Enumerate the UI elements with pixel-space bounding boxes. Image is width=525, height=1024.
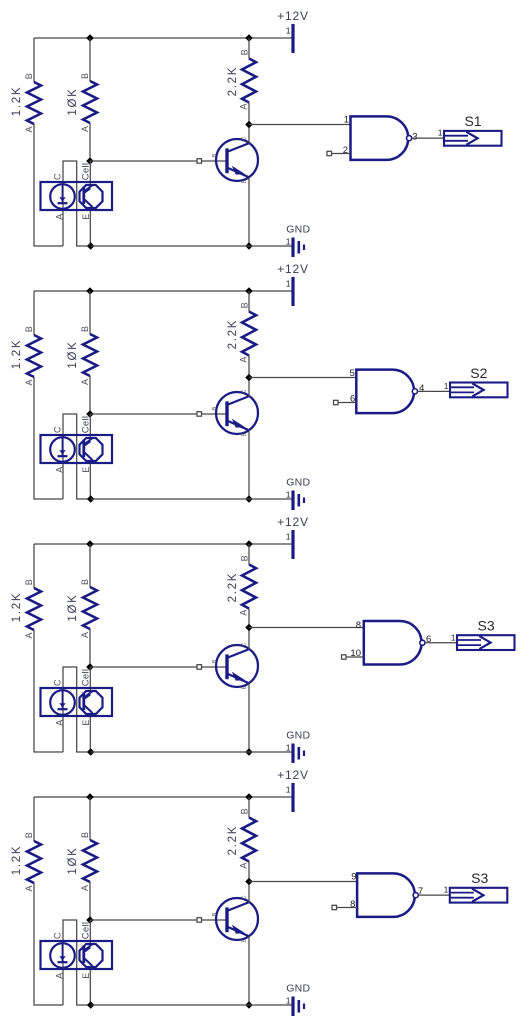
wire: ground rail (section 3) xyxy=(91,751,292,753)
wire: base wire to transistor (section 4) xyxy=(90,919,226,921)
svg-text:1: 1 xyxy=(286,490,291,500)
section 3 xyxy=(11,515,515,763)
wire: phototransistor collector lead (section 1) xyxy=(89,161,91,186)
node: emitter / ground rail junction (section 3) xyxy=(245,748,253,756)
svg-text:B: B xyxy=(212,659,218,663)
svg-text:1: 1 xyxy=(444,885,449,895)
transistor Q1 xyxy=(212,136,258,183)
svg-text:2.2K: 2.2K xyxy=(227,66,239,96)
svg-text:+12V: +12V xyxy=(277,768,309,782)
resistor R2b 10K xyxy=(67,326,97,385)
transistor Q3 xyxy=(212,642,258,689)
svg-text:1.2K: 1.2K xyxy=(11,592,23,622)
pin marker: transistor base pin square (section 3) xyxy=(197,665,202,670)
svg-text:1ØK: 1ØK xyxy=(67,340,79,368)
node: top rail / 2.2K junction (section 2) xyxy=(245,287,253,295)
pin marker: transistor base pin square (section 1) xyxy=(197,159,202,164)
resistor R4a 1.2K xyxy=(11,832,41,891)
wire: emitter lead (section 3) xyxy=(248,683,250,752)
svg-text:1.2K: 1.2K xyxy=(11,339,23,369)
pin marker: transistor base pin square (section 2) xyxy=(197,412,202,417)
wire: 1.2K bottom lead to anode hook (section 3) xyxy=(34,630,63,752)
wire: +12V top rail (section 1) xyxy=(34,37,292,39)
svg-text:A: A xyxy=(24,885,34,891)
svg-text:A: A xyxy=(239,104,249,110)
wire: 10K top lead (section 1) xyxy=(89,38,91,81)
svg-text:Cell: Cell xyxy=(81,669,92,687)
svg-text:B: B xyxy=(80,326,90,332)
svg-text:1ØK: 1ØK xyxy=(67,87,79,115)
svg-text:2.2K: 2.2K xyxy=(227,319,239,349)
svg-text:1ØK: 1ØK xyxy=(67,593,79,621)
wire: 1.2K top lead (section 2) xyxy=(33,291,35,335)
optocoupler U1a Cell xyxy=(41,163,113,220)
wire: phototransistor emitter lead (section 4) xyxy=(89,966,91,1005)
wire: 1.2K bottom lead to anode hook (section 1) xyxy=(34,124,63,246)
optocoupler U3a Cell xyxy=(41,669,113,726)
svg-text:B: B xyxy=(240,302,250,308)
node: base node junction (section 3) xyxy=(86,663,94,671)
port S3 (section 4) xyxy=(444,870,508,903)
svg-text:1: 1 xyxy=(286,532,291,542)
svg-text:A: A xyxy=(55,973,65,979)
node: base node junction (section 1) xyxy=(86,157,94,165)
section 2 xyxy=(11,262,508,510)
wire: 1.2K bottom lead to anode hook (section 2) xyxy=(34,377,63,499)
resistor R2c 2.2K xyxy=(227,302,256,362)
node: top rail / 2.2K junction (section 3) xyxy=(245,540,253,548)
wire: +12V top rail (section 4) xyxy=(34,796,292,798)
svg-text:+12V: +12V xyxy=(277,9,309,23)
power +12V P1 xyxy=(277,9,309,53)
svg-text:6: 6 xyxy=(426,634,431,645)
wire: ground rail (section 2) xyxy=(91,498,292,500)
wire: LED cathode route (section 3) xyxy=(63,667,91,752)
svg-text:A: A xyxy=(239,863,249,869)
svg-text:B: B xyxy=(80,73,90,79)
pin marker: unused gate input square (section 3) xyxy=(342,655,347,659)
wire: 10K bottom lead (section 3) xyxy=(89,629,91,667)
node: ground rail left junction (section 4) xyxy=(87,1001,95,1009)
svg-text:S3: S3 xyxy=(478,618,495,634)
wire: collector lead (section 4) xyxy=(248,882,250,904)
svg-text:A: A xyxy=(55,467,65,473)
wire: 10K bottom lead (section 1) xyxy=(89,123,91,161)
wire: ground rail (section 1) xyxy=(91,245,292,247)
wire: unused gate input stub (section 2) xyxy=(338,402,356,404)
power +12V P3 xyxy=(277,515,309,559)
wire: 1.2K top lead (section 1) xyxy=(33,38,35,82)
svg-text:B: B xyxy=(80,832,90,838)
wire: 2.2K bottom lead (section 2) xyxy=(248,356,250,378)
svg-text:GND: GND xyxy=(286,730,310,742)
pin marker: unused gate input square (section 4) xyxy=(332,905,337,909)
wire: 2.2K bottom lead (section 4) xyxy=(248,862,250,882)
svg-text:GND: GND xyxy=(286,983,310,995)
wire: emitter lead (section 1) xyxy=(248,177,250,246)
wire: base wire to transistor (section 3) xyxy=(90,666,226,668)
svg-text:E: E xyxy=(242,938,248,942)
svg-text:B: B xyxy=(212,912,218,916)
wire: gate output to port (section 3) xyxy=(425,642,457,644)
svg-text:A: A xyxy=(80,379,90,385)
pin marker: unused gate input square (section 2) xyxy=(334,400,339,404)
wire: collector to gate input (section 2) xyxy=(249,377,356,379)
svg-text:B: B xyxy=(212,406,218,410)
svg-text:C: C xyxy=(242,895,248,899)
port S1 (section 1) xyxy=(438,113,502,146)
wire: collector lead (section 3) xyxy=(248,628,250,651)
resistor R3a 1.2K xyxy=(11,579,41,638)
svg-text:C: C xyxy=(242,389,248,393)
wire: collector lead (section 1) xyxy=(248,125,250,145)
wire: 10K bottom lead (section 2) xyxy=(89,376,91,414)
wire: emitter lead (section 2) xyxy=(248,430,250,499)
svg-text:S2: S2 xyxy=(470,365,487,381)
wire: gate output to port (section 4) xyxy=(418,894,449,896)
optocoupler U4a Cell xyxy=(41,922,113,979)
svg-text:C: C xyxy=(53,679,63,686)
svg-text:B: B xyxy=(24,832,34,838)
section 1 xyxy=(11,9,502,257)
wire: 10K top lead (section 4) xyxy=(89,797,91,840)
svg-text:E: E xyxy=(242,685,248,689)
resistor R1a 1.2K xyxy=(11,73,41,132)
nand gate U1b xyxy=(343,115,418,160)
wire: 1.2K bottom lead to anode hook (section 4) xyxy=(34,883,63,1005)
svg-text:9: 9 xyxy=(351,872,356,883)
wire: 1.2K top lead (section 3) xyxy=(33,544,35,588)
svg-text:1: 1 xyxy=(438,128,443,138)
svg-text:A: A xyxy=(80,632,90,638)
node: base node junction (section 4) xyxy=(86,916,94,924)
svg-text:B: B xyxy=(24,73,34,79)
wire: 10K top lead (section 3) xyxy=(89,544,91,587)
wire: collector to gate input (section 1) xyxy=(249,124,351,126)
svg-text:C: C xyxy=(53,173,63,180)
wire: 10K bottom lead (section 4) xyxy=(89,882,91,920)
wire: LED cathode route (section 4) xyxy=(63,920,91,1005)
wire: unused gate input stub (section 1) xyxy=(332,153,351,155)
resistor R3b 10K xyxy=(67,579,97,638)
svg-text:E: E xyxy=(81,214,91,220)
svg-text:A: A xyxy=(239,357,249,363)
svg-text:A: A xyxy=(55,214,65,220)
wire: phototransistor collector lead (section 4) xyxy=(89,920,91,945)
svg-text:GND: GND xyxy=(286,224,310,236)
wire: 2.2K top lead (section 3) xyxy=(248,544,250,565)
svg-text:Cell: Cell xyxy=(81,163,92,181)
wire: 2.2K top lead (section 4) xyxy=(248,797,250,818)
resistor R4c 2.2K xyxy=(227,808,256,868)
node: collector junction (section 1) xyxy=(245,121,253,129)
svg-text:1: 1 xyxy=(344,115,349,126)
svg-text:1: 1 xyxy=(451,632,456,642)
svg-text:1ØK: 1ØK xyxy=(67,846,79,874)
wire: +12V top rail (section 3) xyxy=(34,543,292,545)
wire: 2.2K top lead (section 1) xyxy=(248,38,250,59)
svg-text:A: A xyxy=(24,126,34,132)
svg-text:A: A xyxy=(55,720,65,726)
node: top rail / 10K junction (section 3) xyxy=(86,540,94,548)
section 4 xyxy=(11,768,507,1016)
svg-text:B: B xyxy=(24,326,34,332)
svg-text:E: E xyxy=(242,432,248,436)
svg-text:C: C xyxy=(53,932,63,939)
svg-text:3: 3 xyxy=(412,131,417,142)
svg-text:B: B xyxy=(240,555,250,561)
svg-text:A: A xyxy=(80,885,90,891)
wire: gate output to port (section 1) xyxy=(412,137,444,139)
wire: base wire to transistor (section 1) xyxy=(90,160,226,162)
svg-text:5: 5 xyxy=(350,368,355,379)
svg-text:2: 2 xyxy=(343,145,348,156)
ground GND (section 3) xyxy=(286,730,311,764)
optocoupler U2a Cell xyxy=(41,416,113,473)
node: emitter / ground rail junction (section 1) xyxy=(245,242,253,250)
port S2 (section 2) xyxy=(444,365,508,398)
wire: phototransistor collector lead (section 3) xyxy=(89,667,91,692)
svg-text:1: 1 xyxy=(286,743,291,753)
svg-text:2.2K: 2.2K xyxy=(227,825,239,855)
wire: 1.2K top lead (section 4) xyxy=(33,797,35,841)
svg-text:A: A xyxy=(24,632,34,638)
ground GND (section 2) xyxy=(286,477,311,511)
svg-text:S3: S3 xyxy=(471,870,488,886)
svg-text:A: A xyxy=(239,610,249,616)
wire: collector to gate input (section 4) xyxy=(249,881,357,883)
wire: unused gate input stub (section 4) xyxy=(337,907,358,909)
transistor Q2 xyxy=(212,389,258,436)
svg-text:+12V: +12V xyxy=(277,515,309,529)
node: ground rail left junction (section 2) xyxy=(87,495,95,503)
pin marker: transistor base pin square (section 4) xyxy=(197,918,202,923)
svg-text:1: 1 xyxy=(444,381,449,391)
svg-text:B: B xyxy=(80,579,90,585)
node: top rail / 10K junction (section 4) xyxy=(86,793,94,801)
port S3 (section 3) xyxy=(451,618,515,651)
wire: LED cathode route (section 2) xyxy=(63,414,91,499)
svg-text:C: C xyxy=(242,642,248,646)
resistor R1b 10K xyxy=(67,73,97,132)
node: emitter / ground rail junction (section 4) xyxy=(245,1001,253,1009)
svg-text:2.2K: 2.2K xyxy=(227,572,239,602)
transistor Q4 xyxy=(212,895,258,942)
resistor R1c 2.2K xyxy=(227,49,256,109)
svg-text:A: A xyxy=(80,126,90,132)
svg-text:1: 1 xyxy=(286,996,291,1006)
wire: unused gate input stub (section 3) xyxy=(346,656,364,658)
svg-text:E: E xyxy=(81,973,91,979)
svg-text:S1: S1 xyxy=(464,113,481,129)
node: top rail / 10K junction (section 2) xyxy=(86,287,94,295)
svg-text:GND: GND xyxy=(286,477,310,489)
wire: LED cathode route (section 1) xyxy=(63,161,91,246)
pin marker: unused gate input square (section 1) xyxy=(327,151,332,155)
wire: gate output to port (section 2) xyxy=(418,390,450,392)
svg-text:8: 8 xyxy=(350,899,355,910)
wire: phototransistor emitter lead (section 3) xyxy=(89,713,91,752)
nand gate U3b xyxy=(350,620,431,665)
wire: emitter lead (section 4) xyxy=(248,936,250,1005)
wire: phototransistor collector lead (section 2) xyxy=(89,414,91,439)
svg-text:1: 1 xyxy=(286,237,291,247)
node: top rail / 2.2K junction (section 1) xyxy=(245,34,253,42)
svg-text:B: B xyxy=(240,49,250,55)
svg-text:B: B xyxy=(212,153,218,157)
svg-text:C: C xyxy=(242,136,248,140)
wire: 2.2K top lead (section 2) xyxy=(248,291,250,312)
node: emitter / ground rail junction (section 2) xyxy=(245,495,253,503)
svg-text:1.2K: 1.2K xyxy=(11,845,23,875)
ground GND (section 4) xyxy=(286,983,311,1017)
wire: base wire to transistor (section 2) xyxy=(90,413,226,415)
node: collector junction (section 4) xyxy=(245,878,253,886)
nand gate U4b xyxy=(350,872,423,917)
svg-text:C: C xyxy=(53,426,63,433)
wire: collector to gate input (section 3) xyxy=(249,627,364,629)
power +12V P2 xyxy=(277,262,309,306)
svg-text:B: B xyxy=(240,808,250,814)
svg-text:1.2K: 1.2K xyxy=(11,86,23,116)
node: top rail / 2.2K junction (section 4) xyxy=(245,793,253,801)
node: ground rail left junction (section 3) xyxy=(87,748,95,756)
wire: phototransistor emitter lead (section 2) xyxy=(89,460,91,499)
node: top rail / 10K junction (section 1) xyxy=(86,34,94,42)
nand gate U2b xyxy=(350,368,425,413)
svg-text:1: 1 xyxy=(286,785,291,795)
wire: ground rail (section 4) xyxy=(91,1004,292,1006)
wire: +12V top rail (section 2) xyxy=(34,290,292,292)
wire: 10K top lead (section 2) xyxy=(89,291,91,334)
node: ground rail left junction (section 1) xyxy=(87,242,95,250)
svg-text:Cell: Cell xyxy=(81,922,92,940)
svg-text:+12V: +12V xyxy=(277,262,309,276)
svg-text:Cell: Cell xyxy=(81,416,92,434)
svg-text:4: 4 xyxy=(419,383,424,394)
svg-text:B: B xyxy=(24,579,34,585)
svg-text:E: E xyxy=(81,467,91,473)
svg-text:8: 8 xyxy=(356,620,361,631)
power +12V P4 xyxy=(277,768,309,812)
svg-text:A: A xyxy=(24,379,34,385)
resistor R4b 10K xyxy=(67,832,97,891)
svg-text:1: 1 xyxy=(286,26,291,36)
ground GND (section 1) xyxy=(286,224,311,258)
node: collector junction (section 2) xyxy=(245,374,253,382)
wire: phototransistor emitter lead (section 1) xyxy=(89,207,91,246)
wire: 2.2K bottom lead (section 1) xyxy=(248,103,250,125)
wire: 2.2K bottom lead (section 3) xyxy=(248,609,250,628)
svg-text:1: 1 xyxy=(286,279,291,289)
node: base node junction (section 2) xyxy=(86,410,94,418)
resistor R3c 2.2K xyxy=(227,555,256,615)
resistor R2a 1.2K xyxy=(11,326,41,385)
node: collector junction (section 3) xyxy=(245,624,253,632)
svg-text:E: E xyxy=(81,720,91,726)
wire: collector lead (section 2) xyxy=(248,378,250,398)
svg-text:E: E xyxy=(242,179,248,183)
